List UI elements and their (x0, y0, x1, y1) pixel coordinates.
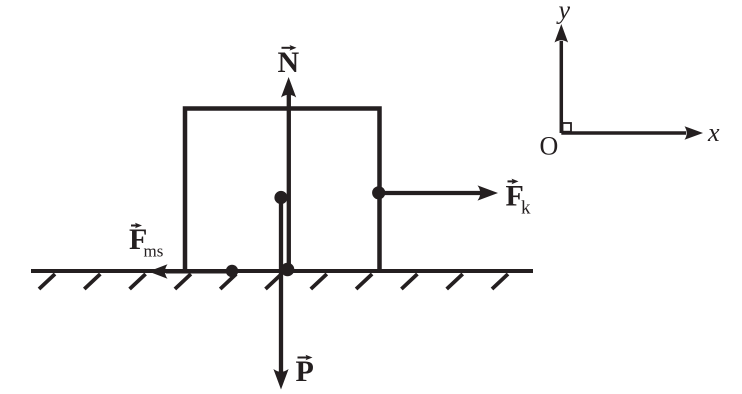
svg-text:y: y (556, 0, 571, 25)
svg-text:O: O (540, 132, 559, 161)
x axis (561, 131, 686, 135)
svg-text:ms: ms (144, 242, 164, 261)
force N arrow (normal force) (287, 94, 291, 269)
coordinate axes (555, 24, 704, 140)
application point dot: friction (226, 265, 238, 277)
ground hatching (39, 274, 508, 289)
ground line (31, 269, 533, 273)
application point dot: contact center (281, 263, 295, 277)
force P arrow (weight) (279, 197, 283, 372)
block (box) (185, 109, 380, 272)
application point dot: right side (372, 186, 385, 199)
label N with vector arrow (278, 45, 300, 79)
svg-text:P: P (296, 355, 314, 388)
force Fms arrow (friction) (166, 269, 232, 273)
svg-text:N: N (278, 46, 300, 79)
force Fk arrow (applied force) (379, 191, 481, 195)
label Fms with vector arrow (129, 223, 163, 261)
svg-text:x: x (707, 118, 720, 147)
label Fk with vector arrow (506, 179, 532, 219)
right angle marker (563, 123, 572, 132)
y axis (560, 41, 564, 133)
application point dot: center of mass (274, 191, 287, 204)
label P with vector arrow (296, 355, 314, 388)
svg-text:k: k (521, 197, 531, 218)
